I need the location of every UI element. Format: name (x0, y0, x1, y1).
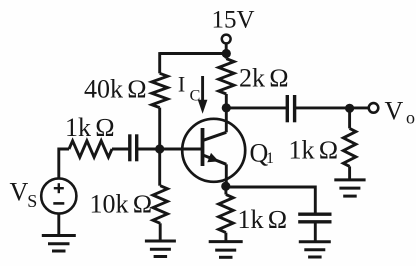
wire: rail to RC (225, 54, 228, 59)
label 40kOhm (84, 74, 147, 103)
resistor RS 1kOhm (source) (69, 141, 112, 157)
wire: collector node to C2 (226, 106, 287, 109)
resistor RC 2kOhm (219, 59, 234, 94)
label 10kOhm (90, 190, 153, 219)
svg-text:10kΩ: 10kΩ (90, 190, 153, 219)
capacitor C1 (input coupling) (130, 134, 137, 161)
ground under RE (209, 242, 243, 258)
power terminal 15V (222, 35, 231, 54)
svg-text:1kΩ: 1kΩ (238, 205, 288, 234)
wire: base node to Q1 base (160, 148, 203, 151)
svg-text:o: o (406, 107, 415, 127)
label 1kOhm (source) (65, 113, 115, 142)
source VS (41, 178, 76, 213)
wire: C3 to ground (314, 222, 317, 242)
wire: output node to RL (348, 108, 351, 128)
resistor RL 1kOhm (load) (343, 128, 356, 166)
resistor R1 40kOhm (152, 73, 168, 107)
wire: VS to ground (57, 214, 60, 236)
node: collector junction (222, 103, 231, 112)
resistor RE 1kOhm (emitter) (219, 195, 234, 233)
resistor R2 10kOhm (153, 186, 168, 224)
wire: C1 to base node (137, 148, 160, 151)
terminal Vo (369, 103, 379, 113)
label 1kOhm (load) (289, 136, 339, 165)
svg-text:S: S (27, 191, 37, 211)
ground under C3 (299, 242, 331, 257)
wire: R1 to base node (158, 108, 161, 149)
svg-text:1: 1 (266, 150, 274, 167)
svg-text:40kΩ: 40kΩ (84, 74, 147, 103)
wire: VS up and to RS (59, 149, 69, 178)
label VS (10, 178, 38, 211)
wire: RE to ground (224, 233, 227, 242)
wire: emitter node to RE (224, 186, 227, 194)
transistor Q1 (182, 110, 245, 186)
svg-text:1kΩ: 1kΩ (65, 113, 115, 142)
svg-text:1kΩ: 1kΩ (289, 136, 339, 165)
wire: C2 to output node (295, 106, 350, 109)
wire: R2 to ground (159, 223, 162, 241)
ground under R2 (145, 241, 176, 257)
label Vo (385, 97, 416, 128)
wire: RS to C1 (112, 148, 130, 151)
svg-text:I: I (178, 72, 185, 97)
wire: output node to Vo terminal (350, 106, 369, 109)
label Q1 (250, 138, 275, 167)
ground under RL (334, 180, 365, 196)
capacitor C2 (output coupling) (287, 95, 294, 122)
current label IC with arrow (178, 72, 208, 114)
svg-text:15V: 15V (212, 7, 255, 34)
ground under VS (42, 236, 76, 252)
wire: emitter node to C3 (226, 187, 315, 214)
node: base junction (155, 144, 164, 153)
svg-text:V: V (10, 178, 29, 207)
svg-text:2kΩ: 2kΩ (239, 64, 289, 93)
label 1kOhm (emitter) (238, 205, 288, 234)
wire: base node to R2 (158, 149, 161, 186)
label 2kOhm (239, 64, 289, 93)
wire: rail to R1 (158, 52, 161, 73)
capacitor C3 (emitter bypass) (298, 214, 331, 222)
node: supply junction (222, 49, 231, 58)
svg-text:V: V (385, 97, 404, 126)
wire: RL to ground (348, 166, 351, 180)
wire: top rail (160, 52, 227, 55)
wire: RC to collector node (225, 94, 228, 108)
node: emitter junction (221, 182, 230, 191)
label 15V (212, 7, 255, 34)
node: output junction (345, 104, 354, 113)
